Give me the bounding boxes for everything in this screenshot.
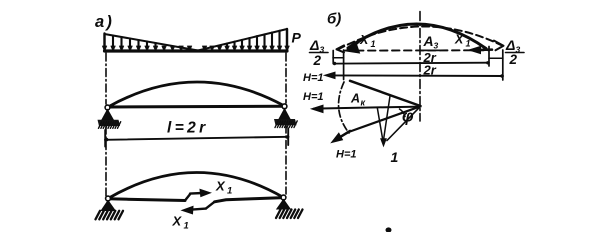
svg-text:X: X: [215, 179, 226, 194]
svg-text:2: 2: [509, 52, 518, 67]
svg-text:l=2r: l=2r: [167, 120, 209, 137]
svg-text:Н=1: Н=1: [303, 72, 324, 84]
svg-text:X: X: [359, 33, 369, 47]
svg-text:A: A: [423, 33, 434, 49]
svg-text:2: 2: [313, 53, 322, 68]
svg-text:Н=1: Н=1: [303, 91, 324, 103]
svg-text:Δ: Δ: [309, 37, 319, 53]
svg-text:P: P: [292, 30, 302, 46]
svg-text:1: 1: [227, 186, 232, 197]
svg-text:3: 3: [434, 41, 439, 51]
svg-text:Н=1: Н=1: [336, 149, 357, 161]
svg-text:φ: φ: [402, 108, 414, 126]
svg-text:2r: 2r: [423, 63, 437, 78]
svg-text:Δ: Δ: [505, 37, 515, 53]
svg-text:X: X: [454, 33, 464, 47]
svg-text:а): а): [95, 13, 114, 31]
svg-text:1: 1: [391, 149, 399, 165]
svg-text:1: 1: [371, 39, 376, 49]
svg-text:A: A: [350, 92, 360, 106]
svg-text:X: X: [172, 214, 183, 229]
svg-text:к: к: [361, 98, 366, 108]
svg-text:1: 1: [184, 221, 189, 232]
svg-text:б): б): [327, 11, 341, 28]
svg-text:1: 1: [466, 39, 471, 49]
